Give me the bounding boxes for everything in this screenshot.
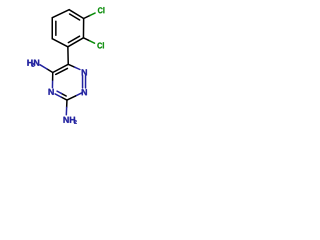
- label H2N: [27, 60, 32, 66]
- bond D-E double outer: [68, 38, 84, 47]
- bond N1=N2 double line a: [82, 76, 84, 88]
- bond N4-C5 black half: [52, 73, 54, 81]
- bond C-Cl1 black half: [84, 15, 90, 18]
- label Cl2: [97, 43, 102, 49]
- bond B-C double outer: [69, 10, 84, 19]
- bond A-B (phenyl edge): [52, 10, 69, 18]
- bond C5=C6 outer: [53, 64, 69, 72]
- bond C5-NH2 black half: [47, 69, 53, 73]
- bond C6-N1 blue half: [75, 67, 80, 69]
- molecule: lamotrigine 2D structure: [0, 0, 130, 130]
- bond N2-C3 blue half: [76, 93, 83, 96]
- label N1: [82, 69, 87, 75]
- bond B-C double inner: [70, 14, 80, 20]
- bond E-C6 biaryl link: [67, 47, 69, 65]
- bond C-D (phenyl right edge): [82, 19, 84, 38]
- bond F-A double inner: [55, 21, 57, 35]
- bond C3-NH2 blue half: [65, 107, 67, 114]
- bond D-E double inner: [68, 36, 79, 42]
- bond N4-C5 blue half: [51, 80, 53, 88]
- label N2: [82, 89, 87, 95]
- bond N1=N2 double line b: [85, 76, 87, 88]
- label Cl1: [98, 7, 103, 13]
- bond D-Cl2 black half: [83, 38, 89, 41]
- bond F-A double outer (phenyl left edge): [51, 18, 53, 39]
- label N4: [49, 89, 54, 95]
- bond E-F (phenyl bottom-left): [52, 39, 68, 47]
- bond C3=N4 outer black half: [61, 97, 67, 100]
- bond D-Cl2 green half: [90, 41, 95, 43]
- bond C3-NH2 black half: [66, 100, 68, 107]
- bond C3=N4 inner black half: [62, 94, 67, 96]
- bond C6-N1 black half: [68, 64, 74, 67]
- bond C5=C6 inner: [56, 68, 68, 74]
- bond C5-NH2 blue half: [40, 65, 47, 69]
- bond C3=N4 inner blue half: [57, 91, 62, 93]
- bond N2-C3 black half: [67, 96, 76, 100]
- bond C3=N4 outer blue half: [55, 94, 61, 97]
- label NH2: [63, 117, 68, 123]
- bond C-Cl1 green half: [90, 13, 95, 15]
